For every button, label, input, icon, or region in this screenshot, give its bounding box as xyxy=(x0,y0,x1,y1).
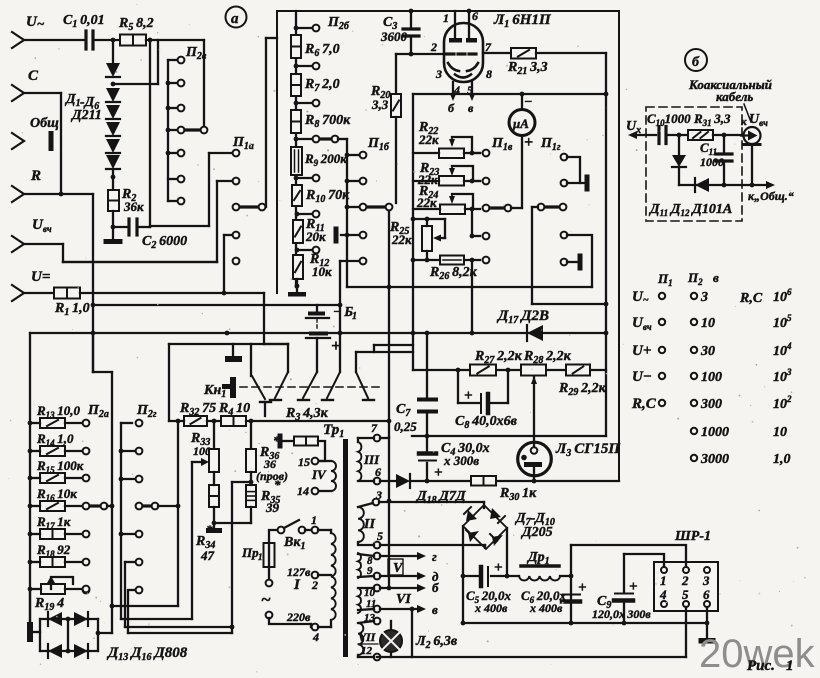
wire Uvch to bus xyxy=(24,243,63,245)
node at R5 left xyxy=(111,38,116,43)
bridge right lead xyxy=(506,528,508,576)
heater output arrows xyxy=(380,555,418,557)
svg-text:Л2 6,3в: Л2 6,3в xyxy=(415,634,458,651)
wire P2g row562 to R35 junction xyxy=(125,626,232,628)
diode D18 D7D xyxy=(396,474,410,488)
svg-text:1: 1 xyxy=(443,11,449,25)
svg-text:к: к xyxy=(741,116,747,128)
svg-text:− Б: − Б xyxy=(333,305,353,320)
switch blade 2 xyxy=(275,372,288,398)
ShR-1 wire to pin2 xyxy=(571,545,686,566)
svg-text:8: 8 xyxy=(486,67,492,81)
svg-text:б: б xyxy=(432,580,439,595)
switch P2v bus xyxy=(167,60,169,201)
mechanical link dashed xyxy=(240,386,383,388)
svg-text:C: C xyxy=(28,68,39,84)
svg-text:1: 1 xyxy=(311,513,317,527)
probe output circle kUvch xyxy=(744,127,761,144)
svg-text:1: 1 xyxy=(786,658,794,674)
svg-text:4: 4 xyxy=(659,587,667,602)
wire R2 to ground node xyxy=(112,211,114,227)
winding VI xyxy=(358,588,361,613)
wire U~ to C1 xyxy=(24,39,85,41)
svg-text:100: 100 xyxy=(701,370,722,385)
transformer core xyxy=(343,439,348,657)
diode D12 xyxy=(679,184,771,186)
column riser P2a xyxy=(111,372,113,633)
resistor R35 vertical xyxy=(246,485,256,507)
resistor R27 2,2k xyxy=(470,365,496,376)
svg-text:R6 7,0: R6 7,0 xyxy=(304,42,340,59)
wire pin3 to rectifier riser xyxy=(388,437,390,588)
svg-text:Л1 6Н1П: Л1 6Н1П xyxy=(493,12,552,30)
P1a contacts xyxy=(233,150,240,157)
winding III xyxy=(358,442,361,481)
table row 1000 xyxy=(691,428,697,434)
svg-text:в: в xyxy=(713,270,719,285)
wire P2g row590 to R35 junction xyxy=(128,632,232,634)
svg-text:2: 2 xyxy=(681,573,689,588)
svg-text:μА: μА xyxy=(512,116,529,131)
svg-text:R29 2,2к: R29 2,2к xyxy=(558,381,607,398)
wire R5 line down to P2v wiper xyxy=(203,40,205,126)
svg-text:VII: VII xyxy=(358,630,377,644)
common wire to chassis xyxy=(214,522,251,524)
svg-text:22к: 22к xyxy=(416,195,437,210)
contact P2b row1 xyxy=(294,26,299,31)
ground under chain xyxy=(295,284,300,289)
wire U= bus to blade2 xyxy=(263,293,265,344)
svg-text:+: + xyxy=(464,388,473,404)
svg-text:4: 4 xyxy=(312,630,319,644)
resistor R6 7,0 xyxy=(291,35,301,58)
P1v contact row1 xyxy=(483,150,490,157)
svg-text:+: + xyxy=(578,580,587,596)
svg-text:U~: U~ xyxy=(26,14,45,31)
svg-text:Д205: Д205 xyxy=(520,525,553,540)
bottom heater bus xyxy=(377,656,686,658)
contacts P2a column xyxy=(83,420,90,427)
switch Vk1 xyxy=(278,527,285,534)
svg-text:R26 8,2к: R26 8,2к xyxy=(429,265,478,282)
winding V xyxy=(358,553,361,578)
svg-text:10: 10 xyxy=(701,316,715,331)
svg-text:3: 3 xyxy=(700,290,708,305)
wire grid line xyxy=(396,53,445,55)
wire R input to riser xyxy=(24,193,93,195)
svg-text:R28 2,2к: R28 2,2к xyxy=(523,349,572,366)
svg-text:36к: 36к xyxy=(123,199,144,214)
lamp L2 6,3v xyxy=(380,630,402,652)
svg-text:(пров): (пров) xyxy=(256,469,288,483)
svg-text:б: б xyxy=(448,101,455,115)
wire node down to diode chain xyxy=(112,40,114,63)
svg-text:R21 3,3: R21 3,3 xyxy=(507,60,548,77)
left bank bus xyxy=(29,333,31,622)
wire R24 node to row4 xyxy=(471,209,473,236)
svg-text:U+: U+ xyxy=(632,343,651,359)
svg-text:220в: 220в xyxy=(286,610,311,624)
svg-text:*: * xyxy=(206,522,213,537)
svg-text:2: 2 xyxy=(311,578,318,592)
svg-text:R27 2,2к: R27 2,2к xyxy=(474,349,523,366)
svg-text:VI: VI xyxy=(396,592,411,607)
svg-text:U−: U− xyxy=(632,369,652,385)
P2g wiper link xyxy=(136,503,143,510)
resistor R7 2,0 xyxy=(291,74,301,96)
svg-text:10к: 10к xyxy=(312,264,332,279)
svg-text:Рис.: Рис. xyxy=(747,658,775,674)
capacitor C10 1000 xyxy=(657,127,660,144)
battery B1 xyxy=(316,305,318,312)
chain bus top xyxy=(295,11,297,287)
svg-text:IV: IV xyxy=(311,467,327,482)
svg-text:R8 700к: R8 700к xyxy=(304,113,351,130)
battery feed bus xyxy=(93,304,340,306)
svg-text:в: в xyxy=(432,602,438,617)
P1g contacts xyxy=(561,154,568,161)
svg-text:а: а xyxy=(231,11,239,27)
svg-text:R,C: R,C xyxy=(739,291,763,306)
contact row R11-R12 xyxy=(295,248,300,253)
diode D11 xyxy=(678,135,680,154)
svg-text:120,0х 300в: 120,0х 300в xyxy=(592,607,651,621)
wiper arrow R33 xyxy=(192,461,205,463)
probe dashed box xyxy=(646,107,742,221)
svg-text:+: + xyxy=(524,134,533,151)
svg-text:3: 3 xyxy=(702,573,710,588)
tube grid dashes xyxy=(447,52,454,55)
blade Kn1 xyxy=(250,344,252,376)
resistor R11 20k xyxy=(293,220,303,243)
R25 wiper arm xyxy=(444,219,446,238)
tube anode plates xyxy=(449,38,462,43)
svg-text:*: * xyxy=(274,477,281,492)
svg-text:R31 3,3: R31 3,3 xyxy=(693,111,731,128)
svg-text:300: 300 xyxy=(700,397,722,412)
svg-text:C101000: C101000 xyxy=(647,111,691,128)
svg-text:R10 70к: R10 70к xyxy=(305,188,350,205)
contact P2b row2 xyxy=(294,64,299,69)
svg-text:1: 1 xyxy=(660,573,667,588)
paper speckles xyxy=(523,19,524,20)
switch P2v contacts xyxy=(168,59,177,61)
resistor R21 3,3 xyxy=(483,52,511,54)
wire U= to R1 xyxy=(24,292,54,294)
node riser right blade3 xyxy=(339,261,341,372)
contacts P2g column xyxy=(136,420,143,427)
capacitor C2 6000 xyxy=(113,226,128,228)
resistor R8 700k xyxy=(291,110,301,133)
bus from P2b wiper to right xyxy=(347,286,592,288)
resistor R12 10k xyxy=(293,255,303,279)
chassis ground ShR-1 xyxy=(706,623,708,638)
resistor R29 2,2k xyxy=(566,365,590,376)
resistor R28 2,2k xyxy=(521,365,546,376)
winding VII xyxy=(358,623,363,655)
svg-text:C1 0,01: C1 0,01 xyxy=(63,13,105,30)
button Kn1 xyxy=(225,356,242,362)
anode bus wire xyxy=(413,93,606,95)
svg-text:Д17 Д2В: Д17 Д2В xyxy=(496,308,549,326)
svg-text:0,25: 0,25 xyxy=(394,419,417,434)
wire R32 left riser xyxy=(177,421,179,606)
svg-text:R5 8,2: R5 8,2 xyxy=(118,16,154,33)
main negative bus xyxy=(463,622,707,624)
svg-text:+: + xyxy=(494,560,503,576)
wire anode supply line xyxy=(380,480,396,482)
probe ground arrow xyxy=(766,181,775,189)
svg-text:+: + xyxy=(434,465,443,481)
supply line to box corner xyxy=(410,480,619,482)
wire C input xyxy=(24,92,61,94)
P2a wiper link xyxy=(83,503,90,510)
tube cathode arcs xyxy=(448,63,459,71)
svg-text:U=: U= xyxy=(31,269,50,285)
P1v contact row5 xyxy=(483,257,490,264)
resistor R26 8,2k xyxy=(440,256,464,265)
tube L1 6N1P envelope xyxy=(444,23,483,82)
riser from R35/R36 junction xyxy=(231,482,233,633)
contact row R9-R10 xyxy=(294,176,299,181)
svg-text:кабель: кабель xyxy=(716,89,753,104)
wire R5 to P2v link xyxy=(146,39,204,41)
svg-text:7: 7 xyxy=(371,421,378,435)
svg-text:20к: 20к xyxy=(305,229,326,244)
P1v contact row2 xyxy=(483,178,490,185)
P1v contact row4 xyxy=(483,233,490,240)
svg-text:R,C: R,C xyxy=(631,396,657,412)
tube heater leads xyxy=(452,82,454,94)
right riser xyxy=(605,53,607,436)
svg-text:6: 6 xyxy=(703,587,710,602)
P2b wiper link row4 xyxy=(294,137,299,142)
tube pin leads top xyxy=(454,11,456,38)
PSU top edge xyxy=(169,343,288,345)
svg-text:3000: 3000 xyxy=(700,452,729,467)
resistor R5 8,2 xyxy=(120,35,146,46)
svg-text:R7 2,0: R7 2,0 xyxy=(304,77,340,94)
ShR-1 wire to pin1 xyxy=(624,554,664,566)
capacitor C6 20,0x400v xyxy=(570,545,572,623)
svg-text:5: 5 xyxy=(682,587,689,602)
voltage stabilizer L3 SG15P xyxy=(518,442,552,476)
svg-text:I: I xyxy=(293,577,301,593)
svg-text:R9 200к: R9 200к xyxy=(304,151,347,168)
wire C1 to node xyxy=(93,39,120,41)
wire riser to R32 xyxy=(112,605,178,607)
P1v wiper link xyxy=(483,205,490,212)
svg-text:х 300в: х 300в xyxy=(443,453,479,468)
svg-text:в: в xyxy=(468,101,474,115)
capacitor C8 40,0x6v xyxy=(457,370,459,403)
resistor R31 3,3 xyxy=(688,130,713,140)
svg-text:R3 4,3к: R3 4,3к xyxy=(285,406,329,423)
svg-text:3,3: 3,3 xyxy=(371,97,389,112)
Uvch bus xyxy=(63,261,217,263)
svg-text:1: 1 xyxy=(258,552,263,562)
svg-text:х 400в: х 400в xyxy=(529,601,563,615)
svg-text:1,0: 1,0 xyxy=(773,452,791,467)
node above R2 xyxy=(111,175,116,180)
pin5 AC wire xyxy=(380,544,485,546)
capacitor C4 30,0x300v xyxy=(419,451,436,456)
svg-text:39: 39 xyxy=(265,500,280,515)
svg-text:15: 15 xyxy=(298,455,310,469)
svg-text:г: г xyxy=(432,549,437,564)
pin3 AC wire xyxy=(379,501,484,503)
wire diode chain to R2 xyxy=(112,169,114,190)
main left riser xyxy=(92,194,94,372)
svg-text:1: 1 xyxy=(352,311,357,322)
P1b contacts xyxy=(360,152,367,159)
contact row R10-R11 xyxy=(295,212,300,217)
PSU enclosure left edge xyxy=(168,344,170,421)
wire R27 row xyxy=(413,369,606,371)
resistor R30 1k xyxy=(471,476,496,486)
svg-text:3: 3 xyxy=(435,67,442,81)
cable pointer xyxy=(744,104,751,122)
table row 3000 xyxy=(691,455,697,461)
circled letter a xyxy=(226,7,247,28)
capacitor C3 3600 xyxy=(410,11,412,27)
contact P2b row3 xyxy=(294,101,299,106)
riser corner to switch columns xyxy=(92,333,94,372)
switch blade 4 xyxy=(356,372,368,398)
winding II xyxy=(358,507,364,542)
circled letter b xyxy=(685,49,707,71)
wire C2 line to P1a riser xyxy=(150,225,209,227)
svg-text:к„Общ.“: к„Общ.“ xyxy=(748,189,794,203)
long node bus line xyxy=(30,332,606,334)
svg-text:Д211: Д211 xyxy=(70,108,102,123)
capacitor C5 20,0x400v xyxy=(463,575,479,577)
wires to blade 4 xyxy=(356,351,413,353)
resistor R20 3,3 adjustable xyxy=(395,54,397,94)
svg-text:−: − xyxy=(524,95,532,110)
svg-text:Л3 СГ15П: Л3 СГ15П xyxy=(555,441,621,459)
svg-text:22к: 22к xyxy=(418,132,439,147)
bridge left lead xyxy=(462,526,464,623)
wire R21 to right riser xyxy=(536,52,606,54)
resistor R9 200k xyxy=(291,147,302,175)
ShR-1 pin5 lead xyxy=(685,607,687,657)
microammeter uA xyxy=(509,110,535,136)
switch blade battery xyxy=(303,372,317,398)
wire lower loop xyxy=(532,303,606,305)
probe arrow Ux xyxy=(632,134,656,136)
riser from P2b wiper xyxy=(346,139,348,287)
svg-text:Д18 Д7Д: Д18 Д7Д xyxy=(415,489,466,506)
svg-text:2: 2 xyxy=(430,40,437,54)
bridge D7-D10 D205 xyxy=(463,505,507,549)
switch P2v wiper link xyxy=(185,128,200,131)
svg-text:3600: 3600 xyxy=(380,29,408,44)
lower bus line xyxy=(412,435,606,437)
capacitor C1 0,01 xyxy=(84,31,87,49)
svg-text:12: 12 xyxy=(361,645,373,657)
capacitor C9 120,0x300v xyxy=(623,554,625,592)
svg-text:R1 1,0: R1 1,0 xyxy=(54,301,90,318)
resistor R1 1,0 xyxy=(54,288,80,299)
junction after first diode xyxy=(111,82,116,87)
svg-text:~: ~ xyxy=(261,590,271,609)
wire R26 node down xyxy=(471,260,473,333)
svg-text:1000: 1000 xyxy=(701,425,729,440)
svg-text:Общ: Общ xyxy=(30,116,59,131)
wire bridge to P2a riser xyxy=(98,632,112,634)
svg-text:10: 10 xyxy=(773,425,787,440)
wire C2 to vertical xyxy=(137,226,150,228)
ground under R2 xyxy=(112,227,114,239)
svg-text:C2 6000: C2 6000 xyxy=(142,234,187,251)
wire P2g riser to R33 wiper xyxy=(121,618,192,620)
resistor R10 70k xyxy=(292,185,302,206)
svg-text:30: 30 xyxy=(700,344,715,359)
box a outline xyxy=(277,11,619,479)
U= bus wire xyxy=(80,292,264,294)
svg-text:R: R xyxy=(30,168,41,184)
diodes D1-D6 D211 chain xyxy=(106,63,120,77)
svg-text:6: 6 xyxy=(472,9,478,23)
svg-text:ШР-1: ШР-1 xyxy=(674,529,711,544)
resistor R36 vertical xyxy=(250,421,252,449)
P2g lower contact wires xyxy=(125,561,135,563)
svg-text:14: 14 xyxy=(297,484,309,498)
resistor R2 36k xyxy=(108,190,119,211)
capacitor C7 0,25 xyxy=(426,333,428,397)
svg-text:47: 47 xyxy=(200,548,215,563)
ShR-1 pins xyxy=(661,567,667,573)
svg-text:б: б xyxy=(692,55,700,70)
svg-text:+: + xyxy=(629,579,638,595)
battery bottom wire xyxy=(316,338,318,372)
svg-text:II: II xyxy=(363,517,375,532)
ShR-1 pin6 lead xyxy=(706,607,708,623)
vertical wire R5 node to C2 line xyxy=(149,40,151,227)
column riser P2g xyxy=(120,423,122,619)
winding I primary xyxy=(331,533,336,620)
svg-text:Пр: Пр xyxy=(241,545,259,560)
wirewound resistor R36 horizontal xyxy=(278,434,283,449)
bridge D13-D16 D808 xyxy=(29,589,31,622)
svg-text:х 400в: х 400в xyxy=(474,601,508,615)
svg-text:22к: 22к xyxy=(391,232,412,247)
wiper R28 to L3 xyxy=(533,377,535,446)
switch blade 3 xyxy=(327,372,340,398)
